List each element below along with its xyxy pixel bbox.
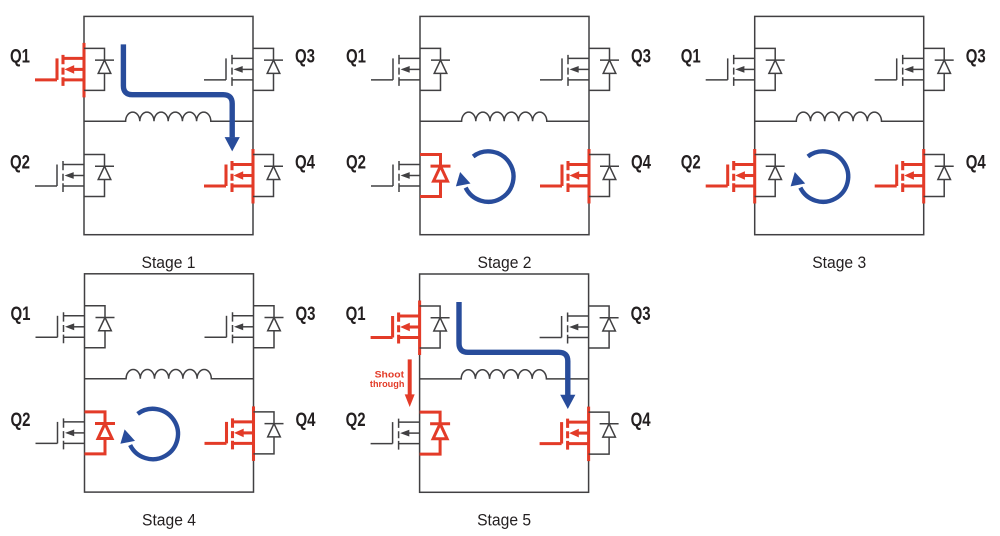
transistor Q1 stage 4 [36, 312, 85, 343]
svg-text:Q3: Q3 [631, 45, 651, 67]
highlighted rail segment of Q4 stage 4 [252, 406, 255, 461]
svg-text:Q3: Q3 [631, 303, 651, 325]
svg-text:Q3: Q3 [296, 303, 316, 325]
svg-text:Q2: Q2 [681, 152, 701, 174]
transistor Q1 stage 5 [371, 313, 420, 344]
transistor Q3 stage 5 [540, 313, 589, 344]
body diode of Q3 stage 3 [924, 48, 954, 90]
body diode of Q2 stage 1 [84, 155, 114, 197]
inductor L1 and middle wire [84, 112, 253, 121]
transistor Q4 stage 5 [540, 419, 589, 450]
body diode of Q4 stage 5 [589, 412, 619, 454]
svg-text:Q1: Q1 [346, 303, 366, 325]
svg-text:Q1: Q1 [10, 45, 30, 67]
body diode of Q4 stage 1 [253, 155, 283, 197]
transistor Q4 stage 4 [205, 418, 254, 449]
svg-text:Q4: Q4 [296, 409, 316, 431]
bridge frame stage 3 [755, 16, 924, 234]
svg-text:Stage 5: Stage 5 [477, 512, 531, 530]
svg-text:Q1: Q1 [346, 45, 366, 67]
body diode of Q2 stage 2 [420, 155, 451, 197]
body diode of Q2 stage 5 [420, 412, 451, 454]
bridge frame stage 4 [85, 274, 254, 492]
body diode of Q4 stage 3 [924, 155, 954, 197]
transistor Q1 stage 3 [706, 55, 755, 86]
highlighted rail segment of Q4 stage 5 [587, 407, 590, 462]
inductor L2 and middle wire [420, 112, 589, 121]
bridge frame stage 2 [420, 16, 589, 234]
svg-text:Q4: Q4 [966, 152, 986, 174]
blue circulating-current arrow stage 2 [456, 151, 514, 201]
blue current-flow arrow stage 1 [123, 44, 239, 151]
body diode of Q1 stage 2 [420, 48, 450, 90]
svg-text:Q2: Q2 [346, 152, 366, 174]
transistor Q2 stage 3 [706, 161, 755, 192]
svg-text:Stage 2: Stage 2 [478, 254, 532, 272]
inductor L4 and middle wire [85, 370, 254, 379]
svg-text:Q2: Q2 [346, 409, 366, 431]
blue circulating-current arrow stage 3 [791, 151, 849, 201]
transistor Q1 stage 2 [371, 55, 420, 86]
blue circulating-current arrow stage 4 [120, 409, 178, 459]
svg-text:through: through [370, 379, 405, 390]
transistor Q4 stage 3 [875, 161, 924, 192]
transistor Q3 stage 2 [540, 55, 589, 86]
transistor Q2 stage 5 [371, 419, 420, 450]
highlighted rail segment of Q4 stage 3 [922, 149, 925, 204]
body diode of Q3 stage 1 [253, 48, 283, 90]
transistor Q2 stage 4 [36, 418, 85, 449]
body diode of Q3 stage 5 [589, 306, 619, 348]
transistor Q2 stage 2 [371, 161, 420, 192]
svg-text:Q2: Q2 [10, 152, 30, 174]
svg-text:Q3: Q3 [966, 45, 986, 67]
highlighted rail segment of Q2 stage 3 [753, 149, 756, 204]
body diode of Q4 stage 2 [589, 155, 619, 197]
highlighted rail segment of Q4 stage 1 [251, 149, 254, 204]
transistor Q2 stage 1 [35, 161, 84, 192]
body diode of Q3 stage 2 [589, 48, 619, 90]
transistor Q1 stage 1 [35, 55, 84, 86]
shoot-through arrow [405, 359, 415, 407]
body diode of Q3 stage 4 [254, 306, 284, 348]
body diode of Q1 stage 4 [85, 306, 115, 348]
transistor Q3 stage 1 [204, 55, 253, 86]
body diode of Q1 stage 5 [420, 306, 450, 348]
svg-text:Q4: Q4 [295, 152, 315, 174]
transistor Q3 stage 3 [875, 55, 924, 86]
svg-text:Q1: Q1 [681, 45, 701, 67]
body diode of Q1 stage 3 [755, 48, 785, 90]
body diode of Q2 stage 4 [85, 412, 116, 454]
svg-text:Q3: Q3 [295, 45, 315, 67]
highlighted rail segment of Q4 stage 2 [587, 149, 590, 204]
highlighted rail segment of Q1 stage 5 [418, 301, 421, 356]
body diode of Q1 stage 1 [84, 48, 114, 90]
body diode of Q2 stage 3 [755, 155, 785, 197]
inductor L3 and middle wire [755, 112, 924, 121]
body diode of Q4 stage 4 [254, 412, 284, 454]
bridge frame stage 1 [84, 16, 253, 234]
svg-text:Q1: Q1 [11, 303, 31, 325]
transistor Q4 stage 1 [204, 161, 253, 192]
svg-text:Q2: Q2 [11, 409, 31, 431]
highlighted rail segment of Q1 stage 1 [82, 43, 85, 98]
svg-text:Stage 4: Stage 4 [142, 511, 196, 529]
svg-text:Stage 1: Stage 1 [142, 254, 196, 272]
svg-text:Q4: Q4 [631, 152, 651, 174]
inductor L5 and middle wire [420, 370, 589, 379]
svg-text:Stage 3: Stage 3 [812, 254, 866, 272]
transistor Q3 stage 4 [205, 312, 254, 343]
svg-text:Q4: Q4 [631, 409, 651, 431]
transistor Q4 stage 2 [540, 161, 589, 192]
blue current-flow arrow stage 5 [459, 302, 575, 409]
bridge frame stage 5 [420, 274, 589, 492]
